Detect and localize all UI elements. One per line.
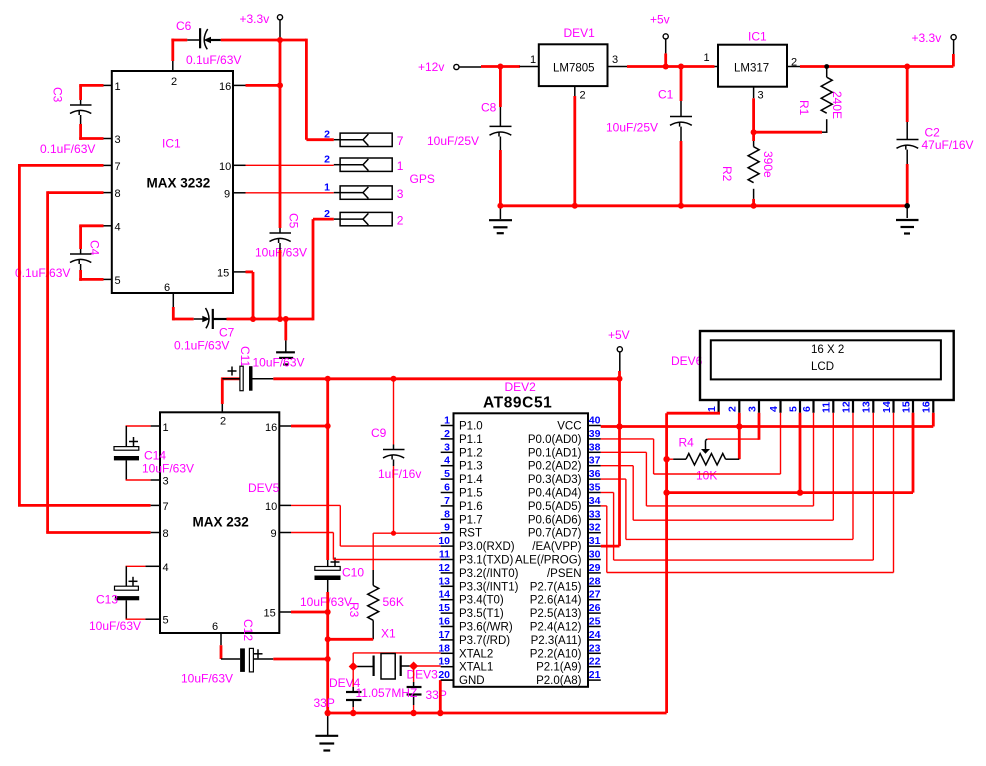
svg-text:33: 33 xyxy=(589,508,601,520)
svg-text:C11: C11 xyxy=(238,346,252,367)
MCU right pin names xyxy=(515,421,582,688)
svg-text:2: 2 xyxy=(171,76,177,88)
wire MCU XTAL2 to crystal xyxy=(353,653,441,667)
svg-text:P0.5(AD5): P0.5(AD5) xyxy=(528,501,582,513)
capacitor C2 47uF/16V xyxy=(897,67,974,206)
svg-text:6: 6 xyxy=(212,621,218,633)
capacitor C3 0.1uF/63V xyxy=(40,85,112,156)
wire R1 bottom to LM317 adj xyxy=(754,131,828,134)
svg-text:29: 29 xyxy=(589,562,601,574)
svg-text:MAX 232: MAX 232 xyxy=(193,515,249,530)
svg-text:2: 2 xyxy=(580,90,586,102)
MCU left pin names xyxy=(459,421,519,688)
svg-text:8: 8 xyxy=(115,188,121,200)
ground symbol (main, bottom) xyxy=(315,714,338,751)
pin 2 of LM7805 to ground rail xyxy=(574,86,576,206)
svg-text:33P: 33P xyxy=(314,696,335,710)
wire pin10 to GPS connector 2 xyxy=(233,164,340,167)
svg-text:P1.0: P1.0 xyxy=(459,421,483,433)
crystal X1 11.057MHZ xyxy=(353,654,413,680)
svg-text:C7: C7 xyxy=(219,326,235,340)
svg-text:9: 9 xyxy=(271,528,277,540)
wire +12v to LM7805 pin1 xyxy=(481,65,539,68)
LCD pin stubs and rotated numbers xyxy=(719,400,934,413)
capacitor C1 xyxy=(606,67,692,206)
svg-text:5: 5 xyxy=(787,406,799,412)
svg-text:P3.7(/RD): P3.7(/RD) xyxy=(459,635,510,647)
svg-text:24: 24 xyxy=(589,629,601,641)
svg-text:25: 25 xyxy=(589,616,601,628)
capacitor C5 10uF/63V (on +3.3v vertical) xyxy=(255,40,307,319)
op-amp? no: IC1 MAX3232 box xyxy=(112,71,233,294)
svg-text:1: 1 xyxy=(163,422,169,434)
svg-text:P0.0(AD0): P0.0(AD0) xyxy=(528,434,582,446)
svg-text:C5: C5 xyxy=(287,213,301,229)
svg-text:12: 12 xyxy=(438,562,450,574)
svg-text:34: 34 xyxy=(589,495,601,507)
regulator IC1 LM317 xyxy=(704,30,798,102)
svg-text:C14: C14 xyxy=(144,449,166,463)
svg-text:35: 35 xyxy=(589,482,601,494)
wire LCD pin2 down to R4 right end xyxy=(738,413,741,459)
svg-text:14: 14 xyxy=(881,401,893,413)
svg-text:0.1uF/63V: 0.1uF/63V xyxy=(15,266,70,280)
ground symbol (C7 rail) xyxy=(276,319,295,365)
svg-text:16: 16 xyxy=(921,401,933,413)
svg-text:0.1uF/63V: 0.1uF/63V xyxy=(174,339,229,353)
svg-text:7: 7 xyxy=(444,495,450,507)
svg-text:38: 38 xyxy=(589,441,601,453)
svg-text:7: 7 xyxy=(115,161,121,173)
svg-text:18: 18 xyxy=(438,642,450,654)
capacitor C7 0.1uF/63V xyxy=(174,308,313,353)
svg-text:2: 2 xyxy=(220,416,226,428)
wire P0.2 pin37 to LCD pin11 xyxy=(601,413,834,520)
capacitor C4 0.1uF/63V xyxy=(15,226,112,281)
svg-text:9: 9 xyxy=(444,522,450,534)
svg-text:7: 7 xyxy=(397,134,404,148)
wire LM7805 pin3 to LM317 pin1 xyxy=(608,66,719,68)
svg-text:27: 27 xyxy=(589,589,601,601)
svg-text:28: 28 xyxy=(589,575,601,587)
svg-text:P1.1: P1.1 xyxy=(459,434,483,446)
svg-text:37: 37 xyxy=(589,455,601,467)
svg-text:3: 3 xyxy=(758,90,764,102)
svg-text:36: 36 xyxy=(589,468,601,480)
svg-text:P0.4(AD4): P0.4(AD4) xyxy=(528,488,582,500)
svg-text:5: 5 xyxy=(444,468,450,480)
svg-text:40: 40 xyxy=(589,415,601,427)
svg-text:+3.3v: +3.3v xyxy=(240,12,270,26)
IC DEV5 MAX232 box xyxy=(160,412,280,633)
MCU right pin leads 40-21 xyxy=(588,426,601,681)
junction dots MAX232 / reset / crystal xyxy=(325,376,331,382)
wire P0.3 pin36 to LCD pin12 xyxy=(601,413,853,540)
svg-text:20: 20 xyxy=(438,669,450,681)
wire +5v rail (C11 to +5v drop) xyxy=(222,377,619,380)
svg-text:R1: R1 xyxy=(797,100,811,116)
svg-text:2: 2 xyxy=(324,154,330,166)
svg-text:P1.5: P1.5 xyxy=(459,488,483,500)
svg-text:3: 3 xyxy=(163,476,169,488)
svg-text:C6: C6 xyxy=(176,19,192,33)
svg-text:21: 21 xyxy=(589,669,601,681)
GPS connector pin 1 xyxy=(324,129,404,149)
svg-text:4: 4 xyxy=(163,562,169,574)
svg-text:10: 10 xyxy=(219,161,231,173)
potentiometer R4 10K xyxy=(667,436,740,483)
svg-text:P3.6(/WR): P3.6(/WR) xyxy=(459,622,513,634)
svg-text:19: 19 xyxy=(438,656,450,668)
svg-text:XTAL2: XTAL2 xyxy=(459,648,493,660)
wire P0.4 pin35 to LCD pin13 xyxy=(601,413,874,560)
svg-text:15: 15 xyxy=(217,268,229,280)
svg-text:C1: C1 xyxy=(658,88,674,102)
svg-text:0.1uF/63V: 0.1uF/63V xyxy=(186,53,241,67)
wire bottom ground rail xyxy=(328,712,667,715)
svg-text:4: 4 xyxy=(115,222,121,234)
svg-text:P2.1(A9): P2.1(A9) xyxy=(536,662,582,674)
svg-text:/PSEN: /PSEN xyxy=(547,568,582,580)
svg-text:10K: 10K xyxy=(696,469,717,483)
wire pin15 MAX232 to ground vertical xyxy=(279,611,327,613)
svg-text:XTAL1: XTAL1 xyxy=(459,662,493,674)
svg-text:GPS: GPS xyxy=(410,172,435,186)
wire pin16 to +3.3v vertical xyxy=(233,84,280,86)
svg-text:P0.7(AD7): P0.7(AD7) xyxy=(528,528,582,540)
svg-text:1: 1 xyxy=(444,415,450,427)
wire crystal to MCU XTAL1 xyxy=(414,665,441,667)
svg-text:LM317: LM317 xyxy=(734,63,769,75)
svg-text:17: 17 xyxy=(438,629,450,641)
svg-text:1: 1 xyxy=(530,54,536,66)
svg-text:C8: C8 xyxy=(481,101,497,115)
svg-text:10uF/25V: 10uF/25V xyxy=(606,121,658,135)
ground symbol (C2) xyxy=(896,206,919,234)
svg-text:6: 6 xyxy=(801,406,813,412)
svg-text:IC1: IC1 xyxy=(748,30,767,44)
svg-text:P1.3: P1.3 xyxy=(459,461,483,473)
svg-text:1: 1 xyxy=(115,81,121,93)
svg-text:16: 16 xyxy=(219,81,231,93)
svg-text:P1.6: P1.6 xyxy=(459,501,483,513)
svg-text:10: 10 xyxy=(265,501,277,513)
IC DEV2 AT89C51 box xyxy=(454,395,589,687)
svg-text:13: 13 xyxy=(438,575,450,587)
svg-text:16 X 2: 16 X 2 xyxy=(811,344,844,356)
svg-text:47uF/16V: 47uF/16V xyxy=(922,138,974,152)
wire pin2 stub up to C6 xyxy=(172,39,174,71)
MCU left pin leads 1-20 xyxy=(441,426,454,681)
svg-text:2: 2 xyxy=(324,208,330,220)
svg-text:P3.2(/INT0): P3.2(/INT0) xyxy=(459,568,519,580)
svg-text:ALE(/PROG): ALE(/PROG) xyxy=(515,555,582,567)
wire pin9 MAX232 to MCU P3.1(TXD) xyxy=(279,533,440,560)
svg-text:0.1uF/63V: 0.1uF/63V xyxy=(40,142,95,156)
svg-text:DEV6: DEV6 xyxy=(671,354,703,368)
svg-text:33P: 33P xyxy=(426,688,447,702)
svg-text:15: 15 xyxy=(900,401,912,413)
wire LCD pin1 to ground vertical xyxy=(667,413,720,713)
svg-text:2: 2 xyxy=(727,406,739,412)
svg-text:P1.7: P1.7 xyxy=(459,514,483,526)
svg-text:P2.0(A8): P2.0(A8) xyxy=(536,675,582,687)
svg-text:R4: R4 xyxy=(679,436,695,450)
svg-text:P0.3(AD3): P0.3(AD3) xyxy=(528,474,582,486)
svg-text:15: 15 xyxy=(264,608,276,620)
ground rail of power supply xyxy=(500,204,907,207)
wire pin8 MAX3232 to pin8 MAX232 (long) xyxy=(46,191,160,532)
svg-text:C10: C10 xyxy=(342,566,364,580)
svg-text:P0.1(AD1): P0.1(AD1) xyxy=(528,447,582,459)
GPS connector pin 4 xyxy=(324,208,404,228)
svg-text:10uF/63V: 10uF/63V xyxy=(253,356,305,370)
wire MCU GND pin20 to bottom rail xyxy=(440,680,453,713)
svg-text:12: 12 xyxy=(840,401,852,413)
svg-text:P1.2: P1.2 xyxy=(459,447,483,459)
capacitor C9 1uF/16v (reset) xyxy=(371,379,421,533)
svg-text:P2.7(A15): P2.7(A15) xyxy=(530,581,582,593)
svg-text:10uF/63V: 10uF/63V xyxy=(300,595,352,609)
wire R3 bottom to ground vertical xyxy=(328,638,374,641)
svg-text:IC1: IC1 xyxy=(162,137,181,151)
capacitor C10 10uF/63V (decoupling) xyxy=(300,558,364,715)
capacitor C14 10uF/63V xyxy=(114,426,194,480)
wire pin6 stub and capacitor C12 10uF/63V xyxy=(181,619,328,686)
node +3.3v terminal (top left) xyxy=(240,12,283,40)
wire pin10 MAX232 to MCU P3.0(RXD) xyxy=(279,505,440,546)
wire +3.3v branch down to connector 1 xyxy=(306,39,340,140)
svg-text:30: 30 xyxy=(589,549,601,561)
capacitor C13 10uF/63V xyxy=(89,566,160,633)
MCU right pin numbers xyxy=(589,415,601,682)
svg-text:DEV5: DEV5 xyxy=(248,481,280,495)
wire P0.0 pin39 to LCD pin4 xyxy=(601,413,781,474)
svg-text:+12v: +12v xyxy=(418,60,444,74)
wire P0.1 pin38 to LCD pin6 xyxy=(601,413,814,506)
svg-text:1uF/16v: 1uF/16v xyxy=(378,467,421,481)
svg-text:P3.5(T1): P3.5(T1) xyxy=(459,608,504,620)
svg-text:RST: RST xyxy=(459,528,482,540)
wire LCD pin15 to ground rail xyxy=(912,413,915,493)
junction dots MCU/LCD section xyxy=(617,376,623,382)
svg-text:14: 14 xyxy=(438,589,450,601)
capacitor C6 0.1uF/63V xyxy=(171,19,306,67)
wire LCD pin5 to ground rail xyxy=(799,413,802,493)
wire pin16 MAX232 to +5v vertical xyxy=(279,377,327,560)
svg-text:DEV2: DEV2 xyxy=(505,380,537,394)
capacitor C8 xyxy=(427,67,512,206)
node +3.3v terminal (right) xyxy=(912,31,957,67)
svg-text:9: 9 xyxy=(224,189,230,201)
svg-text:16: 16 xyxy=(438,616,450,628)
svg-text:2: 2 xyxy=(444,428,450,440)
MCU left pin numbers xyxy=(438,415,450,682)
svg-text:LCD: LCD xyxy=(811,361,834,373)
capacitor DEV4 33P xyxy=(314,667,362,714)
capacitor DEV3 33P xyxy=(407,666,447,713)
node +5V terminal (middle) xyxy=(608,328,630,379)
svg-text:1: 1 xyxy=(397,159,404,173)
svg-text:3: 3 xyxy=(115,134,121,146)
svg-text:P3.4(T0): P3.4(T0) xyxy=(459,595,504,607)
svg-text:P3.1(TXD): P3.1(TXD) xyxy=(459,555,513,567)
svg-text:1: 1 xyxy=(706,406,718,412)
svg-text:10uF/63V: 10uF/63V xyxy=(181,672,233,686)
wire R4 wiper to LCD pin3 xyxy=(706,413,760,441)
svg-text:11: 11 xyxy=(821,402,833,413)
pin 3 of LM317 down to adj node xyxy=(753,87,755,133)
svg-text:P2.6(A14): P2.6(A14) xyxy=(530,595,582,607)
svg-text:2: 2 xyxy=(324,129,330,141)
svg-text:5: 5 xyxy=(115,275,121,287)
svg-text:R2: R2 xyxy=(720,166,734,182)
svg-text:P2.5(A13): P2.5(A13) xyxy=(530,608,582,620)
node +12v terminal xyxy=(418,60,481,74)
svg-text:13: 13 xyxy=(861,401,873,413)
wire pin9 to GPS connector 3 xyxy=(233,192,340,194)
svg-text:P0.2(AD2): P0.2(AD2) xyxy=(528,461,582,473)
wire LM317 pin2 to +3.3v rail xyxy=(787,66,953,68)
svg-text:P3.3(/INT1): P3.3(/INT1) xyxy=(459,581,519,593)
svg-text:P1.4: P1.4 xyxy=(459,474,483,486)
svg-text:1: 1 xyxy=(704,52,710,64)
resistor R1 240E xyxy=(797,68,844,132)
svg-text:+3.3v: +3.3v xyxy=(912,31,942,45)
resistor R3 56K xyxy=(347,570,404,639)
svg-text:P2.3(A11): P2.3(A11) xyxy=(531,635,582,647)
svg-text:DEV3: DEV3 xyxy=(407,668,439,682)
svg-text:7: 7 xyxy=(163,501,169,513)
wire +5v drop to VCC rail and /EA xyxy=(601,379,620,546)
resistor R2 390e xyxy=(720,132,775,206)
wire pin7 MAX3232 to pin7 MAX232 (long) xyxy=(18,164,160,505)
svg-text:MAX 3232: MAX 3232 xyxy=(147,176,211,191)
junction dots MAX3232 section xyxy=(277,37,283,43)
svg-text:DEV1: DEV1 xyxy=(564,26,596,40)
svg-text:P2.2(A10): P2.2(A10) xyxy=(530,648,582,660)
GPS connector pin 3 xyxy=(324,182,404,202)
svg-text:P2.4(A12): P2.4(A12) xyxy=(530,622,582,634)
svg-text:10: 10 xyxy=(438,535,450,547)
wire VCC rail pin40 to LCD pin16 xyxy=(601,413,934,427)
node +5v terminal xyxy=(650,13,670,67)
svg-text:P0.6(AD6): P0.6(AD6) xyxy=(528,514,582,526)
svg-text:LM7805: LM7805 xyxy=(553,63,595,75)
svg-text:C13: C13 xyxy=(96,593,118,607)
svg-text:11: 11 xyxy=(439,549,450,561)
svg-text:22: 22 xyxy=(589,656,601,668)
LCD module DEV6 16X2 xyxy=(671,331,954,400)
svg-text:10uF/25V: 10uF/25V xyxy=(427,134,479,148)
svg-text:23: 23 xyxy=(589,642,601,654)
svg-text:+5v: +5v xyxy=(650,13,670,27)
svg-text:6: 6 xyxy=(444,482,450,494)
svg-text:11.057MHZ: 11.057MHZ xyxy=(356,686,418,700)
svg-text:26: 26 xyxy=(589,602,601,614)
svg-text:4: 4 xyxy=(768,406,780,412)
svg-text:C9: C9 xyxy=(371,426,387,440)
wire pin15 down to bottom rail xyxy=(233,272,253,319)
svg-text:GND: GND xyxy=(459,675,485,687)
svg-text:3: 3 xyxy=(746,406,758,412)
capacitor C11 10uF/63V (in series on rail) xyxy=(222,346,304,412)
svg-text:16: 16 xyxy=(265,422,277,434)
regulator DEV1 LM7805 xyxy=(530,26,618,102)
ground symbol (LM7805) xyxy=(489,206,512,233)
svg-text:8: 8 xyxy=(444,508,450,520)
wire P0.5 pin34 to LCD pin14 xyxy=(601,413,894,573)
junction dots power supply xyxy=(497,64,503,70)
svg-text:10uF/63V: 10uF/63V xyxy=(89,619,141,633)
wire pin6 down to C7 rail xyxy=(173,293,193,320)
wire MCU RST to R3 xyxy=(373,533,441,570)
svg-text:56K: 56K xyxy=(383,595,404,609)
svg-text:R3: R3 xyxy=(347,602,361,618)
svg-text:4: 4 xyxy=(444,455,450,467)
wire LCD ground rail xyxy=(667,491,913,494)
svg-text:390e: 390e xyxy=(761,151,775,178)
svg-text:C3: C3 xyxy=(51,87,65,103)
svg-text:39: 39 xyxy=(589,428,601,440)
svg-text:31: 31 xyxy=(589,535,601,547)
svg-text:1: 1 xyxy=(324,182,330,194)
svg-text:3: 3 xyxy=(612,54,618,66)
GPS connector pin 2 xyxy=(324,154,404,174)
svg-text:3: 3 xyxy=(444,441,450,453)
svg-text:X1: X1 xyxy=(381,627,396,641)
svg-text:5: 5 xyxy=(163,615,169,627)
svg-text:6: 6 xyxy=(164,282,170,294)
svg-text:+5V: +5V xyxy=(608,328,630,342)
svg-text:C12: C12 xyxy=(241,619,255,641)
svg-text:AT89C51: AT89C51 xyxy=(483,395,552,412)
svg-text:P3.0(RXD): P3.0(RXD) xyxy=(459,541,515,553)
svg-text:32: 32 xyxy=(589,522,601,534)
svg-text:8: 8 xyxy=(163,528,169,540)
svg-text:VCC: VCC xyxy=(557,421,581,433)
svg-text:2: 2 xyxy=(397,214,404,228)
svg-text:/EA(VPP): /EA(VPP) xyxy=(532,541,581,553)
svg-text:15: 15 xyxy=(438,602,450,614)
wire connector 4 branch down to C7 rail xyxy=(313,219,340,320)
svg-text:3: 3 xyxy=(397,187,404,201)
svg-text:10uF/63V: 10uF/63V xyxy=(142,462,194,476)
